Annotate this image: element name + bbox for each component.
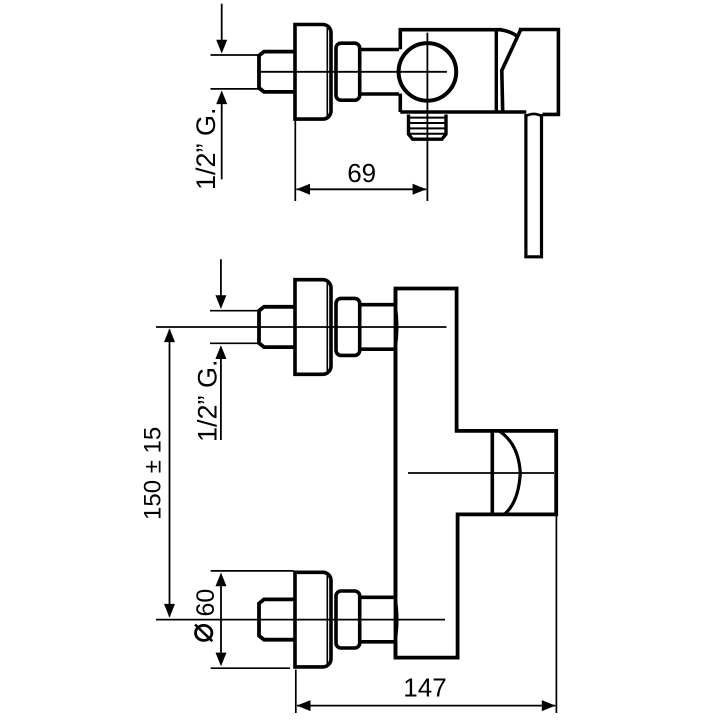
front view: upper hex nut bbox=[336, 298, 360, 355]
dim 69: right arrowhead bbox=[413, 184, 427, 195]
front view: lower flange tangent edge line bbox=[326, 573, 328, 666]
dim 69: left arrowhead bbox=[296, 184, 310, 195]
dim 1/2 G. front: lower extension line bbox=[210, 342, 258, 344]
top view: body rounded end arc bbox=[500, 30, 517, 37]
top view: shower hose outlet with threads bbox=[409, 115, 447, 140]
dim Ø60: bottom arrowhead bbox=[216, 653, 227, 667]
top view: body outline bbox=[400, 30, 526, 112]
dim 150±15: top arrowhead bbox=[164, 328, 175, 342]
dim 1/2 G. top: down arrow bbox=[221, 4, 223, 42]
front view: body outline bbox=[396, 289, 557, 658]
svg-text:69: 69 bbox=[347, 158, 376, 188]
top view: body end cap edge bbox=[495, 30, 498, 112]
top view: vertical centerline through valve and outlet bbox=[426, 33, 428, 201]
dim 69: left extension line bbox=[294, 121, 296, 201]
front view: body left edge segments bbox=[394, 289, 398, 658]
front view: upper connection cylinder edges bbox=[360, 305, 396, 350]
top view: connection cylinder edges bbox=[360, 50, 399, 95]
top view: horizontal centerline bbox=[259, 71, 447, 73]
top view: lever base slanted edge bbox=[502, 30, 521, 113]
dim 1/2 G. front: up arrow bbox=[220, 357, 222, 440]
front view: lower inlet centerline bbox=[156, 619, 445, 621]
svg-text:1/2” G.: 1/2” G. bbox=[193, 359, 223, 442]
dim 147: right arrowhead bbox=[542, 700, 556, 711]
front view: boss arc bbox=[500, 431, 521, 514]
top view: lever handle rod bbox=[526, 114, 542, 257]
svg-text:150 ± 15: 150 ± 15 bbox=[140, 427, 167, 520]
top view: hex nut bbox=[336, 43, 360, 100]
dim 1/2 G. top: upper extension line bbox=[211, 54, 259, 56]
top view: flange tangent edge line bbox=[326, 26, 328, 119]
svg-text:60: 60 bbox=[192, 589, 220, 617]
front view: upper wall flange bbox=[295, 280, 331, 375]
front view: boss centerline bbox=[408, 472, 554, 474]
front view: lower wall flange bbox=[295, 572, 331, 667]
top view: wall flange bbox=[295, 25, 331, 120]
front view: upper inlet centerline bbox=[156, 326, 447, 328]
svg-text:1/2” G.: 1/2” G. bbox=[191, 107, 221, 190]
dim 150±15: bottom arrowhead bbox=[164, 604, 175, 618]
dim 147: dimension line bbox=[297, 705, 555, 707]
front view: upper inlet nipple bbox=[259, 307, 296, 347]
dim 1/2 G. front: down arrow bbox=[220, 259, 222, 297]
front view: lower inlet fillet arc bbox=[396, 597, 398, 642]
dim 150±15: dimension line bbox=[169, 330, 171, 617]
front view: upper inlet fillet arc bbox=[396, 305, 398, 350]
front view: lower hex nut bbox=[336, 591, 360, 648]
dim Ø60: lower extension line bbox=[211, 667, 290, 669]
top view: lever rod top arc bbox=[526, 114, 542, 116]
top view: valve circle bbox=[399, 43, 457, 101]
front view: upper flange tangent edge line bbox=[326, 281, 328, 374]
svg-text:147: 147 bbox=[403, 673, 446, 703]
front view: boss base line bbox=[490, 431, 494, 514]
dim 69: dimension line bbox=[297, 188, 427, 190]
top view: inlet nipple 1/2" bbox=[259, 52, 296, 92]
front view: lower connection cylinder edges bbox=[360, 597, 396, 642]
top view: lever top right outline bbox=[519, 30, 559, 115]
dim Ø60: upper extension line bbox=[211, 570, 294, 572]
dim 147: left arrowhead bbox=[297, 700, 311, 711]
front view: lower inlet nipple bbox=[259, 599, 296, 639]
dim 147: right extension line bbox=[555, 516, 557, 713]
dim Ø60: top arrowhead bbox=[216, 573, 227, 587]
top view: outlet thread lines bbox=[410, 118, 446, 134]
dim 147: left extension line bbox=[295, 670, 297, 714]
dim 1/2 G. top: lower extension line bbox=[211, 88, 259, 90]
dim 1/2 G. front: upper extension line bbox=[210, 310, 258, 312]
dim 1/2 G. top: up arrow bbox=[221, 102, 223, 179]
dim Ø60: dimension line bbox=[220, 575, 222, 664]
